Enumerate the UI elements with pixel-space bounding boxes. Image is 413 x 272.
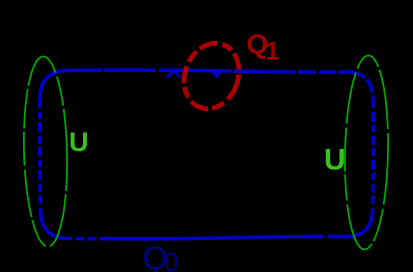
- cylinder top-right corner: [346, 72, 373, 100]
- cylinder bottom edge (blue): [68, 236, 346, 238]
- cylinder bottom-right corner: [346, 210, 373, 237]
- arrow mark 1 on top edge: [167, 71, 181, 78]
- cylinder top edge (blue): [68, 70, 346, 72]
- arrow mark 2 on top edge: [211, 72, 224, 79]
- svg-text:U: U: [324, 144, 346, 177]
- cylinder top-left corner: [40, 71, 68, 100]
- svg-text:U: U: [69, 127, 89, 157]
- left neighbourhood ellipse U (green dashed): [22, 56, 70, 247]
- right neighbourhood ellipse U (green dashed): [343, 55, 390, 250]
- loop Q1 (red dashed ellipse): [175, 35, 248, 116]
- cylinder bottom-left corner: [41, 210, 69, 239]
- cylinder right edge (blue, dashed): [371, 100, 375, 210]
- svg-text:0: 0: [164, 247, 178, 272]
- svg-text:1: 1: [266, 37, 280, 65]
- cylinder left edge (blue, dashed): [38, 99, 42, 210]
